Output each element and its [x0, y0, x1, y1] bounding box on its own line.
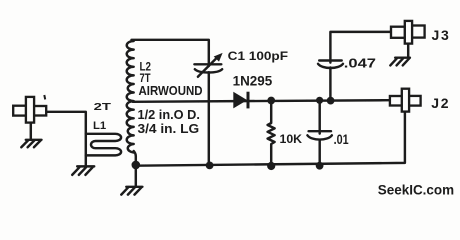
svg-text:C1 100pF: C1 100pF — [228, 49, 288, 63]
ground (below L1) — [77, 165, 94, 167]
wire .01 top stem — [318, 100, 320, 133]
node L2 bottom — [132, 161, 141, 170]
connector J1 — [13, 97, 46, 123]
tick mark near J1 — [43, 95, 46, 99]
ground (below L2) — [126, 186, 142, 188]
C1 arrow head — [214, 53, 223, 62]
wire C1 bottom to bottom rail — [208, 72, 210, 165]
capacitor .047 plates — [319, 59, 342, 61]
svg-text:SeekIC.com: SeekIC.com — [378, 183, 454, 199]
ground (below J3) — [395, 56, 410, 58]
svg-text:2T: 2T — [94, 101, 112, 112]
node C1 bottom rail — [206, 162, 214, 170]
svg-text:L1: L1 — [93, 120, 106, 132]
svg-text:.01: .01 — [334, 132, 349, 147]
wire top rail to C1 — [132, 40, 209, 66]
svg-text:1N295: 1N295 — [233, 72, 273, 88]
wire tap rail (L2 tap to diode to J2) — [133, 100, 391, 102]
svg-text:1/2 in.O D.: 1/2 in.O D. — [138, 107, 200, 122]
junction dots — [132, 97, 335, 170]
wire .01 bottom stem — [318, 140, 320, 166]
connector J2 — [390, 89, 421, 112]
svg-text:.047: .047 — [344, 57, 376, 71]
resistor 10K — [268, 101, 275, 166]
node 10K bottom — [267, 162, 275, 170]
wire J3 to C .047 — [330, 32, 390, 63]
ground (below J1) — [26, 139, 42, 141]
capacitor C1 plates — [194, 63, 221, 65]
wire .047 to tap rail — [329, 68, 331, 101]
wire J1 to L1 stem — [46, 112, 86, 166]
svg-text:J2: J2 — [431, 95, 450, 111]
wire L2 bottom to ground — [134, 151, 136, 186]
wire bottom rail to J2 sleeve — [136, 112, 405, 166]
node .01 top — [316, 97, 323, 104]
wire J3 ground stem — [407, 44, 409, 57]
svg-text:10K: 10K — [280, 132, 303, 146]
wire J1 ground stem — [30, 123, 32, 139]
svg-text:AIRWOUND: AIRWOUND — [139, 83, 203, 98]
svg-text:3/4 in. LG: 3/4 in. LG — [138, 121, 200, 136]
connector J3 — [391, 21, 425, 44]
node .047 bottom — [327, 97, 335, 105]
inductor L2 (coil, 13 bumps) — [127, 41, 134, 153]
C1 arrow shaft — [198, 59, 216, 77]
svg-text:J3: J3 — [432, 27, 451, 43]
node 10K top — [267, 97, 275, 105]
capacitor .01 plates — [309, 130, 331, 132]
inductor L1 (2 turns) — [86, 134, 121, 156]
node .01 bottom — [316, 162, 324, 170]
diode 1N295 — [233, 92, 248, 109]
